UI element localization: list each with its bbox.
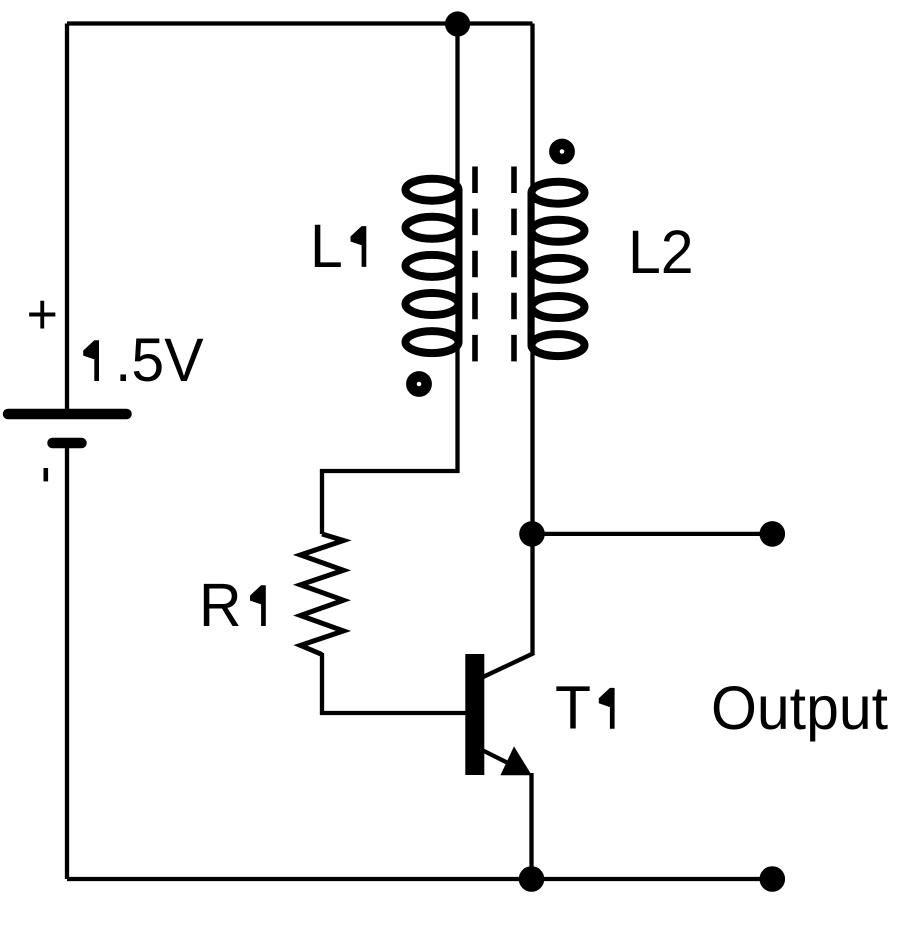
battery minus sign label [44,468,49,481]
transistor T1 emitter arrow [500,746,531,775]
wire L2 secondary / collector line [530,24,534,655]
svg-text:+: + [27,282,59,345]
svg-text:L2: L2 [628,217,694,286]
resistor R1 zigzag [301,534,344,655]
wire base lead from resistor to transistor [322,653,466,713]
wire L1 primary: down from junction, jog left to resistor [322,24,458,535]
transformer core dashed line left [472,167,478,362]
transformer core dashed line right [511,167,517,362]
inductor L2 winding connectors at wire [528,193,535,345]
transistor T1 base bar [465,654,484,775]
battery B1 negative plate [53,438,82,449]
svg-text:R: R [199,570,242,639]
svg-text:Output: Output [711,673,888,742]
transistor T1 emitter lead diagonal [482,750,518,768]
svg-text:.5V: .5V [115,325,204,394]
inductor L1 primary winding [406,179,459,353]
terminal output top dot [760,521,786,547]
wire emitter to bottom rail [529,773,533,879]
svg-text:T: T [555,673,591,742]
wire bottom rail [67,877,772,881]
wire top rail from battery plus to transformer [67,21,533,25]
L2 phase dot [554,144,569,159]
node collector junction dot [519,521,545,547]
wire battery positive lead [65,24,69,411]
battery B1 positive plate [8,409,127,420]
wire battery negative lead [65,440,69,879]
svg-text:L: L [310,211,343,280]
inductor L2 secondary winding [532,182,585,356]
terminal output bottom dot [760,866,786,892]
inductor L1 winding connectors at wire [456,190,463,342]
L1 phase dot [411,376,426,391]
wire output top [532,532,772,536]
node junction dot top rail to L1 [445,11,470,36]
transistor T1 collector lead diagonal [482,653,534,678]
node emitter bottom junction dot [519,866,545,892]
